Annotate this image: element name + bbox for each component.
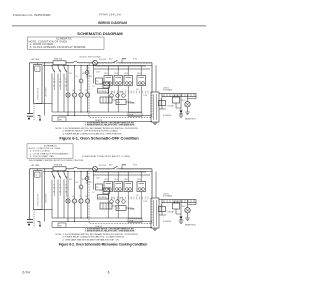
svg-text:TCO2: TCO2 (122, 59, 126, 61)
wire - branch at x=64 (63, 171, 65, 173)
svg-text:3. OVEN LAMP, FAN MOTOR AND T: 3. OVEN LAMP, FAN MOTOR AND TURNTABLE MO… (63, 238, 120, 241)
connector pin comb (105, 91, 107, 94)
oven lamp L1 (66, 199, 70, 203)
door hook actuator (38, 115, 41, 117)
svg-text:H.SW: H.SW (133, 59, 138, 61)
relay RY1 (104, 182, 113, 192)
svg-text:FUSE 20A: FUSE 20A (54, 164, 63, 167)
relay RY5 (137, 76, 146, 86)
wire - branch at x=52 (51, 65, 53, 67)
wire - lamp branch (67, 65, 69, 93)
wire - interlock to bus (44, 104, 46, 116)
svg-text:CN-B: CN-B (96, 178, 100, 180)
svg-text:LVT: LVT (92, 86, 95, 88)
wire - assembly bottom link (36, 103, 52, 105)
buzzer BZ (110, 94, 114, 98)
wire - transformer to rail (159, 199, 162, 201)
svg-text:CPU BRD: CPU BRD (98, 197, 106, 199)
svg-text:SCHEMATIC: SCHEMATIC (44, 144, 58, 147)
wire - control feed (93, 171, 95, 189)
svg-text:OL: OL (66, 196, 68, 198)
oven lamp L1 (66, 93, 70, 97)
fan motor FM1 (72, 199, 76, 203)
svg-text:TT: TT (79, 90, 81, 92)
wire - assembly bottom link (36, 209, 52, 211)
svg-text:TT: TT (79, 196, 81, 198)
primary interlock switch (52, 173, 54, 178)
wire - top AC bus left segment (30, 168, 54, 170)
thermal cutout TCO1 (93, 166, 98, 171)
wire - top bus segment to right (120, 168, 152, 170)
wire - AC neutral rail (43, 170, 152, 172)
relay RY5 (137, 182, 146, 192)
label box - power unit (96, 184, 103, 190)
relay RY1 (104, 76, 113, 86)
wire - top bus segment to relay contact (97, 62, 110, 64)
svg-text:BZ: BZ (112, 92, 114, 94)
svg-text:Figure 6-2. Oven Schematic-Mi: Figure 6-2. Oven Schematic-Microwave Coo… (59, 242, 148, 246)
varistor ZNR (116, 94, 120, 98)
wire - top bus segment (66, 168, 73, 170)
capacitor C2 (122, 200, 126, 204)
secondary interlock switch (58, 67, 60, 72)
svg-text:1. DOOR SENSING SWITCH, SECON: 1. DOOR SENSING SWITCH, SECONDARY INTERL… (63, 233, 139, 236)
door linkage (dashed) (33, 104, 35, 122)
interlock switch assembly block (34, 171, 43, 210)
thermal cutout TCO1 (93, 60, 98, 65)
svg-text:CPU BRD: CPU BRD (98, 91, 106, 93)
svg-text:INTERLOCK SW: INTERLOCK SW (38, 193, 40, 206)
cooling fan motor FM3 (85, 177, 89, 181)
svg-text:CAUTION : HIGH VOLTAGE: CAUTION : HIGH VOLTAGE (79, 56, 101, 59)
note box 1 - schematic condition (OFF) (28, 37, 105, 49)
wire - bottom bus 1 (52, 111, 142, 113)
interlock switch assembly block (34, 65, 43, 104)
wire - hood fan branch (80, 171, 82, 185)
wire - bottom return bus (52, 226, 152, 228)
wire - interlock feed (37, 169, 39, 171)
wire - branch at x=58 (57, 171, 59, 173)
wire - hood fan branch (80, 65, 82, 79)
ground - magnetron (185, 217, 190, 219)
wire - contact jog (121, 59, 123, 63)
H.V. transformer T1 primary block (151, 92, 159, 122)
svg-text:6: 6 (108, 271, 110, 275)
fuse F1 (53, 61, 66, 65)
stirrer motor M3 (85, 93, 89, 97)
svg-text:WHT: WHT (69, 179, 72, 181)
magnetron MG (187, 94, 188, 95)
svg-text:6/04: 6/04 (23, 271, 31, 275)
svg-text:NOTE:: NOTE: (56, 234, 63, 236)
svg-text:2. CLOCK APPEARS ON DISPLAY W: 2. CLOCK APPEARS ON DISPLAY WINDOW. (30, 46, 86, 49)
svg-text:3. MONITOR SWITCH 4. RELAY RY: 3. MONITOR SWITCH 4. RELAY RY1-RY2 : OPE… (85, 229, 135, 232)
relay RY3 (114, 76, 123, 86)
relay contact RY-2 (110, 168, 113, 170)
svg-text:WHT: WHT (69, 73, 72, 75)
note box 2 - schematic condition (cooking) (27, 144, 73, 158)
svg-text:3. TOUCH START PAD.: 3. TOUCH START PAD. (30, 155, 55, 158)
relay RY4 (124, 76, 133, 86)
wire - right drop to H.V. transformer (151, 63, 153, 92)
low voltage transformer LVT (100, 203, 112, 209)
svg-text:CN-A: CN-A (129, 114, 134, 117)
connector pin comb (105, 197, 107, 200)
relay RY6 (116, 206, 126, 211)
label box - control board (98, 89, 109, 94)
H.V. transformer secondary winding (162, 94, 196, 97)
svg-text:RY-1: RY-1 (105, 73, 108, 75)
svg-text:22V: 22V (136, 89, 139, 91)
wire - branch at x=64 (63, 65, 65, 67)
relay RY4 (124, 182, 133, 192)
svg-text:INTERLOCK SW: INTERLOCK SW (38, 87, 40, 100)
wire - relay bus drop (94, 64, 96, 66)
hood fan motor FM2 (79, 185, 83, 189)
cavity TCO contact (73, 61, 78, 63)
door sensing switch SW1 (35, 66, 40, 71)
svg-text:FUSE 20A: FUSE 20A (54, 58, 63, 61)
AC plug terminals (27, 219, 33, 221)
label box - relay driver (103, 188, 110, 194)
svg-text:(POWER RELAY CONTACTS RY1 AND: (POWER RELAY CONTACTS RY1 AND RY2 : CLOS… (82, 155, 130, 158)
svg-text:FFMV164LSA: FFMV164LSA (99, 12, 121, 16)
control unit U1 (dashed enclosure) (89, 169, 152, 224)
svg-text:RY-5: RY-5 (138, 179, 141, 181)
wire - diode branch (180, 200, 181, 201)
wire - bottom bus 2 (52, 115, 152, 117)
relay contact RY-2 (110, 62, 113, 64)
wire - top AC bus left segment (30, 62, 54, 64)
wire - secondary left drop (159, 214, 167, 216)
svg-text:N.F. 120V: N.F. 120V (99, 59, 107, 61)
wire - contact jog (121, 165, 123, 169)
wire - relay bus drop (94, 170, 96, 172)
ground - magnetron (185, 111, 190, 113)
wire - fan branch (74, 65, 76, 93)
svg-text:RY-1: RY-1 (105, 179, 108, 181)
wire - component row links (112, 99, 116, 101)
svg-text:2. MONITOR SWITCH : OFF POSIT: 2. MONITOR SWITCH : OFF POSITION (DOOR I… (63, 131, 118, 133)
svg-text:RY-3: RY-3 (115, 179, 118, 181)
wire - rail end stub (195, 203, 197, 205)
relay RY6 (116, 100, 126, 105)
label box - power unit (96, 78, 103, 84)
cooling fan motor FM3 (85, 71, 89, 75)
label box - relay driver (103, 82, 110, 88)
svg-text:OL: OL (66, 90, 68, 92)
svg-text:H.SW: H.SW (133, 165, 138, 167)
wire - top bus segment 2 (78, 62, 93, 64)
svg-text:3. MONITOR SWITCH 4. RELAY RY: 3. MONITOR SWITCH 4. RELAY RY1-RY2 : OPE… (85, 123, 135, 126)
svg-text:N.F. 120V: N.F. 120V (99, 165, 107, 167)
label box - control board (98, 195, 109, 200)
wire - branch at x=58 (57, 65, 59, 67)
svg-text:RY-5: RY-5 (138, 73, 141, 75)
header rule (12, 25, 206, 27)
svg-text:Figure 6-1. Oven Schematic-OF: Figure 6-1. Oven Schematic-OFF Condition (59, 135, 139, 140)
wire - internal bus (94, 68, 151, 70)
door sensing switch SW1 (35, 172, 40, 177)
AC plug terminals (27, 113, 33, 115)
svg-text:1. DOOR SENSING SWITCH, SECON: 1. DOOR SENSING SWITCH, SECONDARY INTERL… (63, 127, 139, 130)
wire - top bus segment 2 (78, 168, 93, 170)
H.V. transformer secondary winding (162, 200, 196, 203)
svg-text:BLK: BLK (76, 76, 79, 78)
turntable motor M2 (79, 199, 83, 203)
svg-text:22V: 22V (136, 195, 139, 197)
wire - AC neutral rail (43, 64, 152, 66)
control unit U1 (dashed enclosure) (89, 63, 152, 118)
wire - transformer to rail (159, 93, 162, 95)
wire - fan branch (74, 171, 76, 199)
svg-text:BZ: BZ (112, 198, 114, 200)
door hook actuator (38, 221, 41, 223)
svg-text:RY-4: RY-4 (125, 179, 128, 181)
H.V. transformer T1 primary block (151, 198, 159, 228)
primary interlock switch (52, 67, 54, 72)
wire - component row links (112, 205, 116, 207)
wire - control feed (93, 65, 95, 83)
svg-text:CN-A: CN-A (129, 220, 134, 223)
svg-text:2. POWER RELAY CONTACTS RY1 A: 2. POWER RELAY CONTACTS RY1 AND RY2 : CL… (63, 236, 125, 239)
svg-text:WIRING DIAGRAM: WIRING DIAGRAM (98, 21, 127, 25)
junction dots on bottom bus (67, 221, 68, 222)
stirrer motor M3 (85, 199, 89, 203)
fan motor FM1 (72, 93, 76, 97)
thermistor block TH (58, 223, 66, 227)
H.V. diode D1 (179, 111, 182, 114)
low voltage transformer LVT (100, 97, 112, 103)
junction dots on bottom bus (67, 115, 68, 116)
wire - stirrer branch (87, 65, 89, 93)
wire - interlock feed (37, 63, 39, 65)
svg-text:AC LINE: AC LINE (32, 58, 40, 61)
svg-text:TCO2: TCO2 (122, 165, 126, 167)
wire - left vertical main (29, 63, 31, 103)
wire - left vertical main (29, 169, 31, 209)
monitor switch (64, 67, 66, 72)
wire - left main drop (29, 103, 31, 114)
fuse holder FH (159, 207, 166, 212)
terminal block CN-A (128, 219, 142, 223)
door linkage (dashed) (33, 210, 35, 228)
wire - diode branch (180, 94, 181, 95)
wire - bottom return bus (52, 120, 152, 122)
ground - diode (179, 114, 184, 116)
svg-text:SCHEMATIC DIAGRAM: SCHEMATIC DIAGRAM (77, 31, 123, 36)
wire - relay outputs to bottom bus (107, 192, 109, 219)
magnetron MG (187, 200, 188, 201)
svg-text:RY-4: RY-4 (125, 73, 128, 75)
svg-text:2M219J: 2M219J (163, 87, 169, 89)
wire - relay row bus (95, 171, 146, 173)
svg-text:RY-3: RY-3 (115, 73, 118, 75)
relay RY3 (114, 182, 123, 192)
svg-text:CN-B: CN-B (96, 72, 100, 74)
thermistor block TH (58, 117, 66, 121)
svg-text:TH1: TH1 (59, 225, 62, 227)
capacitor C2 (122, 94, 126, 98)
wire - rail end stub (195, 97, 197, 99)
wire - left main drop (29, 209, 31, 220)
ground - transformer frame (153, 121, 158, 123)
svg-text:2100V: 2100V (181, 100, 185, 102)
svg-text:H.V.DIODE: H.V.DIODE (163, 221, 171, 223)
svg-text:LVT: LVT (92, 192, 95, 194)
svg-text:RY-2: RY-2 (109, 59, 113, 61)
filament winding coil (161, 204, 162, 212)
wire - top bus segment to relay contact (97, 168, 110, 170)
fuse F1 (53, 167, 66, 171)
svg-text:AC LINE: AC LINE (32, 164, 40, 167)
wire - top bus segment (66, 62, 73, 64)
wire - lamp branch (67, 171, 69, 199)
cavity TCO contact (73, 167, 78, 169)
wire - internal bus (94, 174, 151, 176)
wire - bottom bus 2 (52, 221, 152, 223)
svg-text:BLK: BLK (76, 182, 79, 184)
varistor ZNR (116, 200, 120, 204)
wire - secondary left drop (159, 108, 167, 110)
svg-text:RY-2: RY-2 (109, 165, 113, 167)
svg-text:H.V.DIODE: H.V.DIODE (163, 115, 171, 117)
buzzer BZ (110, 200, 114, 204)
ground - transformer frame (153, 227, 158, 229)
turntable motor M2 (79, 93, 83, 97)
terminal block CN-A (128, 113, 142, 117)
wire - relay row bus (95, 65, 146, 67)
H.V. diode D1 (179, 217, 182, 220)
svg-text:TH1: TH1 (59, 119, 62, 121)
H.V. capacitor C1 (173, 97, 180, 103)
wire - branch at x=52 (51, 171, 53, 173)
page background (0, 0, 218, 285)
fuse holder FH (159, 101, 166, 106)
wire - stirrer branch (87, 171, 89, 199)
wire - top bus segment to right (120, 62, 152, 64)
svg-text:2M219J: 2M219J (163, 193, 169, 195)
wire - interlock to bus (44, 210, 46, 222)
H.V. capacitor C1 (173, 203, 180, 209)
wire - relay outputs to bottom bus (107, 86, 109, 113)
svg-text:THIS SCHEMATIC SHOWS CIRCUIT I: THIS SCHEMATIC SHOWS CIRCUIT IN COOKING … (29, 159, 84, 162)
hood fan motor FM2 (79, 79, 83, 83)
ground - diode (179, 220, 184, 222)
svg-text:NOTE:: NOTE: (56, 128, 63, 130)
secondary interlock switch (58, 173, 60, 178)
svg-text:2. COOK TIME NOT PROGRAMMED.: 2. COOK TIME NOT PROGRAMMED. (30, 152, 69, 155)
svg-text:2100V: 2100V (181, 206, 185, 208)
wire - bottom bus 1 (52, 217, 142, 219)
monitor switch (64, 173, 66, 178)
svg-text:Publication No. 5995545382: Publication No. 5995545382 (13, 13, 51, 17)
wire - right drop to H.V. transformer (151, 169, 153, 198)
filament winding coil (161, 98, 162, 106)
